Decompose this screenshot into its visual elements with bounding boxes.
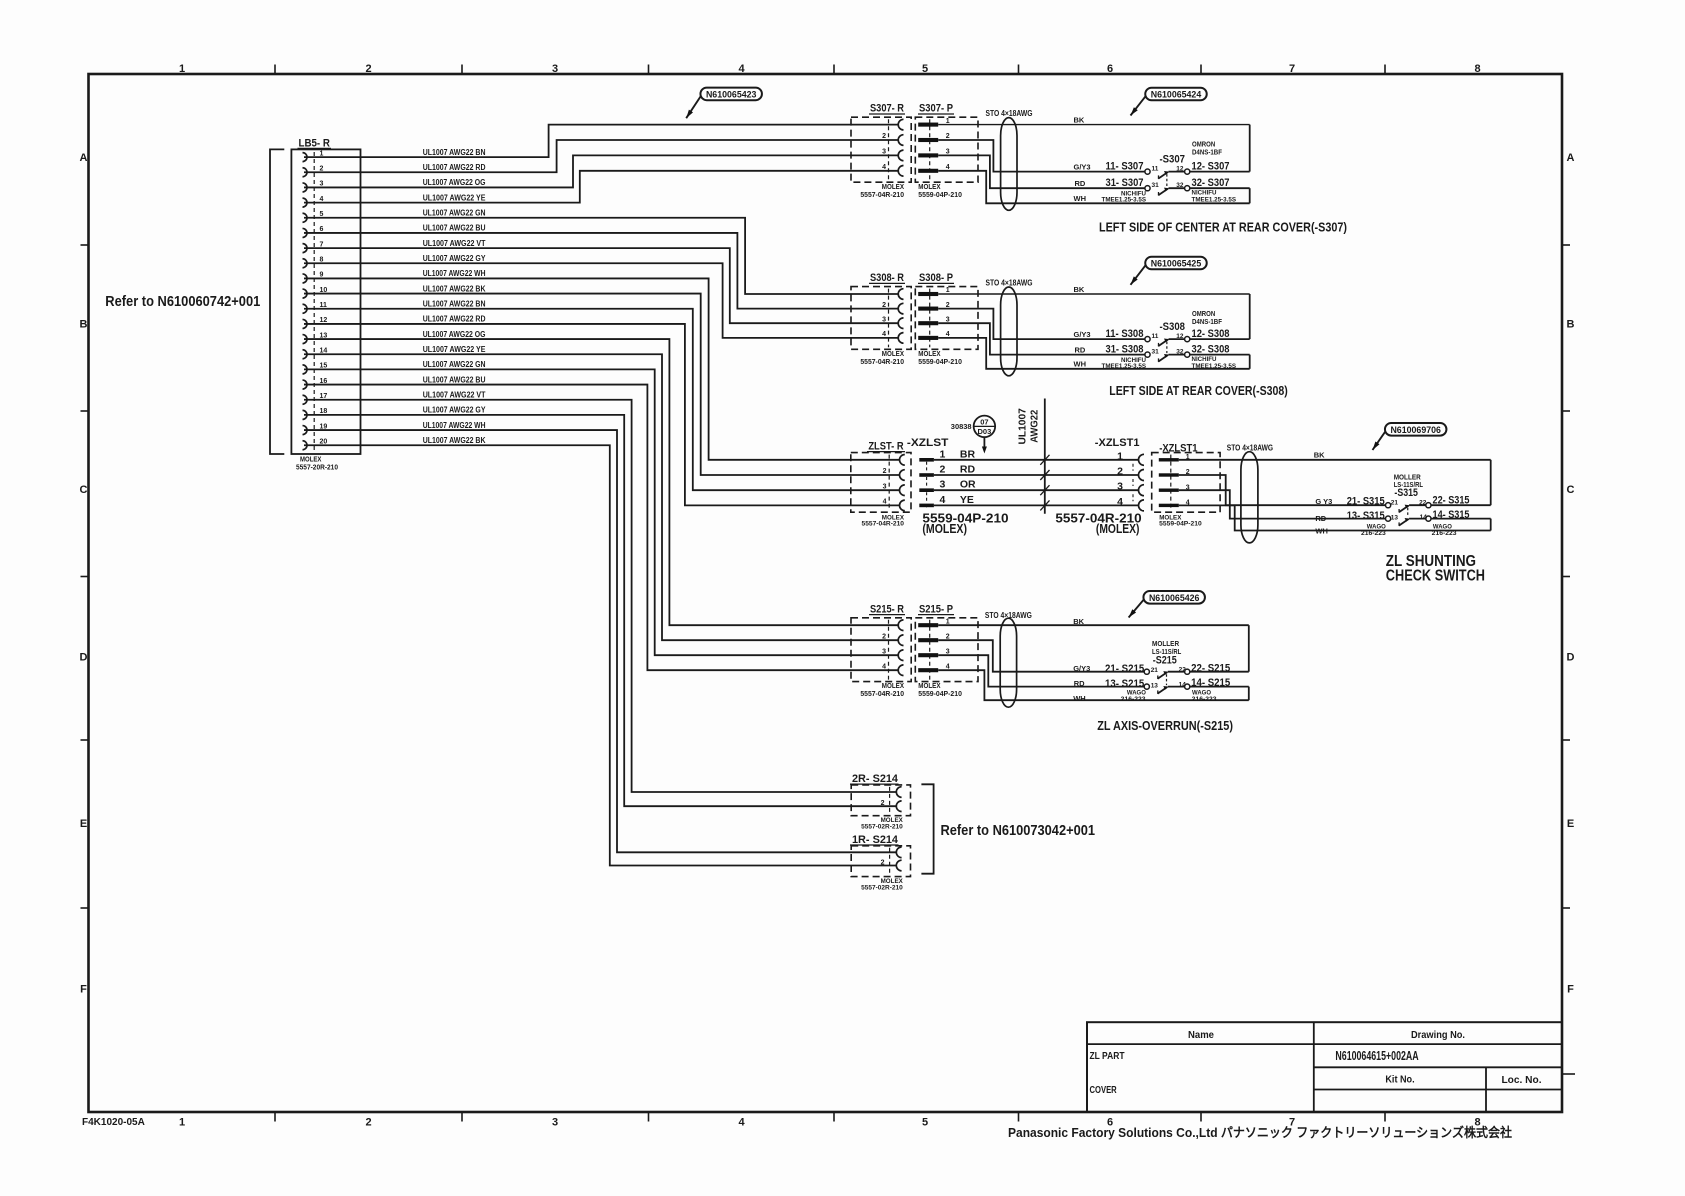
svg-text:TMEE1.25-3.5S: TMEE1.25-3.5S — [1192, 196, 1237, 203]
svg-text:Loc. No.: Loc. No. — [1501, 1074, 1541, 1086]
svg-text:21: 21 — [1151, 667, 1159, 674]
svg-text:UL1007 AWG22 BK: UL1007 AWG22 BK — [423, 436, 486, 445]
svg-text:UL1007: UL1007 — [1017, 408, 1029, 444]
svg-text:B: B — [80, 319, 88, 331]
svg-text:4: 4 — [883, 499, 887, 506]
svg-text:-XZLST: -XZLST — [907, 437, 949, 449]
svg-text:N610065424: N610065424 — [1151, 90, 1202, 100]
svg-text:RD: RD — [1075, 179, 1086, 188]
svg-text:5557-02R-210: 5557-02R-210 — [861, 824, 903, 831]
svg-text:WH: WH — [1074, 194, 1087, 203]
svg-text:14: 14 — [1420, 514, 1428, 521]
svg-text:5557-04R-210: 5557-04R-210 — [860, 359, 904, 366]
svg-text:F: F — [80, 984, 87, 996]
svg-text:D4NS-1BF: D4NS-1BF — [1192, 147, 1222, 156]
svg-text:S308- P: S308- P — [919, 272, 953, 284]
svg-text:Kit No.: Kit No. — [1385, 1073, 1414, 1085]
svg-text:4: 4 — [738, 1117, 745, 1129]
svg-text:RD: RD — [960, 464, 976, 476]
svg-text:C: C — [80, 484, 88, 496]
svg-text:UL1007 AWG22 GY: UL1007 AWG22 GY — [423, 254, 486, 263]
svg-text:5559-04P-210: 5559-04P-210 — [1159, 520, 1202, 527]
svg-text:1: 1 — [946, 118, 950, 125]
svg-text:S215- R: S215- R — [870, 603, 904, 615]
svg-text:WH: WH — [1315, 526, 1328, 535]
svg-text:7: 7 — [1289, 63, 1295, 75]
svg-text:D4NS-1BF: D4NS-1BF — [1192, 317, 1222, 326]
svg-text:C: C — [1567, 484, 1575, 496]
svg-text:30838: 30838 — [951, 422, 972, 431]
svg-text:22- S315: 22- S315 — [1433, 495, 1470, 507]
svg-text:4: 4 — [1117, 496, 1123, 508]
svg-text:UL1007 AWG22 BK: UL1007 AWG22 BK — [423, 284, 486, 293]
svg-text:Panasonic Factory Solutions Co: Panasonic Factory Solutions Co.,Ltd パナソニ… — [1008, 1125, 1512, 1140]
svg-text:-XZLST1: -XZLST1 — [1159, 443, 1197, 455]
svg-text:G Y3: G Y3 — [1315, 497, 1332, 506]
svg-text:UL1007 AWG22 RD: UL1007 AWG22 RD — [423, 315, 486, 324]
svg-text:32: 32 — [1176, 182, 1184, 189]
svg-text:5557-20R-210: 5557-20R-210 — [296, 465, 338, 472]
svg-text:LEFT SIDE OF CENTER AT REAR CO: LEFT SIDE OF CENTER AT REAR COVER(-S307) — [1099, 221, 1347, 235]
svg-text:6: 6 — [1107, 63, 1113, 75]
svg-text:Name: Name — [1188, 1029, 1214, 1041]
svg-text:N610065425: N610065425 — [1151, 259, 1202, 269]
svg-text:(MOLEX): (MOLEX) — [922, 521, 967, 536]
svg-text:G/Y3: G/Y3 — [1073, 664, 1090, 673]
svg-text:D03: D03 — [978, 427, 992, 436]
svg-text:ZL AXIS-OVERRUN(-S215): ZL AXIS-OVERRUN(-S215) — [1097, 719, 1233, 733]
svg-text:BK: BK — [1074, 285, 1085, 294]
svg-text:4: 4 — [882, 164, 886, 171]
svg-text:-S307: -S307 — [1160, 153, 1186, 165]
svg-text:07: 07 — [980, 417, 988, 426]
svg-text:1R- S214: 1R- S214 — [852, 834, 899, 846]
svg-text:ZLST- R: ZLST- R — [868, 441, 903, 453]
svg-text:BK: BK — [1073, 617, 1084, 626]
svg-text:BK: BK — [1074, 115, 1085, 124]
svg-text:5557-04R-210: 5557-04R-210 — [862, 520, 905, 527]
svg-text:12: 12 — [1176, 333, 1184, 340]
svg-text:216-223: 216-223 — [1121, 696, 1146, 703]
svg-text:5559-04P-210: 5559-04P-210 — [918, 691, 962, 698]
svg-text:3: 3 — [1117, 481, 1123, 493]
svg-text:UL1007 AWG22 BU: UL1007 AWG22 BU — [423, 375, 486, 384]
svg-text:ZL PART: ZL PART — [1090, 1050, 1125, 1062]
svg-text:21- S315: 21- S315 — [1347, 496, 1385, 508]
svg-text:-S315: -S315 — [1394, 487, 1418, 499]
svg-text:F: F — [1567, 984, 1574, 996]
svg-text:31- S308: 31- S308 — [1106, 344, 1144, 356]
svg-text:BR: BR — [960, 448, 976, 460]
svg-text:5557-04R-210: 5557-04R-210 — [860, 691, 904, 698]
svg-text:UL1007 AWG22 OG: UL1007 AWG22 OG — [423, 178, 486, 187]
svg-text:D: D — [1567, 652, 1575, 664]
svg-text:5: 5 — [922, 63, 928, 75]
svg-text:RD: RD — [1074, 679, 1085, 688]
svg-text:2: 2 — [940, 464, 946, 476]
svg-text:3: 3 — [882, 149, 886, 156]
svg-text:UL1007 AWG22 OG: UL1007 AWG22 OG — [423, 330, 486, 339]
svg-text:UL1007 AWG22 BU: UL1007 AWG22 BU — [423, 224, 486, 233]
svg-text:-S215: -S215 — [1153, 654, 1177, 666]
svg-text:3: 3 — [883, 483, 887, 490]
svg-text:MOLEX: MOLEX — [882, 683, 904, 690]
svg-text:32- S307: 32- S307 — [1192, 177, 1230, 189]
svg-text:S307- R: S307- R — [870, 103, 904, 115]
svg-text:5: 5 — [922, 1117, 928, 1129]
svg-text:1: 1 — [940, 448, 946, 460]
svg-text:CHECK SWITCH: CHECK SWITCH — [1386, 568, 1485, 585]
svg-text:11- S308: 11- S308 — [1106, 328, 1144, 340]
svg-text:TMEE1.25-3.5S: TMEE1.25-3.5S — [1102, 363, 1147, 370]
svg-text:31- S307: 31- S307 — [1106, 177, 1144, 189]
svg-text:E: E — [80, 818, 87, 830]
svg-text:22- S215: 22- S215 — [1191, 662, 1230, 674]
svg-text:5559-04P-210: 5559-04P-210 — [918, 359, 962, 366]
svg-text:COVER: COVER — [1090, 1084, 1118, 1096]
svg-text:UL1007 AWG22 WH: UL1007 AWG22 WH — [423, 269, 486, 278]
svg-text:UL1007 AWG22 RD: UL1007 AWG22 RD — [423, 163, 486, 172]
svg-text:UL1007 AWG22 BN: UL1007 AWG22 BN — [423, 148, 486, 157]
svg-text:2: 2 — [882, 133, 886, 140]
svg-text:LEFT SIDE AT REAR COVER(-S308): LEFT SIDE AT REAR COVER(-S308) — [1109, 384, 1288, 398]
svg-text:E: E — [1567, 818, 1574, 830]
svg-text:MOLEX: MOLEX — [918, 184, 940, 191]
svg-text:WH: WH — [1074, 360, 1087, 369]
svg-text:3: 3 — [882, 316, 886, 323]
svg-text:-XZLST1: -XZLST1 — [1095, 437, 1140, 449]
svg-text:216-223: 216-223 — [1432, 530, 1457, 537]
svg-text:13: 13 — [1151, 682, 1159, 689]
svg-text:UL1007 AWG22 BN: UL1007 AWG22 BN — [423, 300, 486, 309]
svg-text:UL1007 AWG22 YE: UL1007 AWG22 YE — [423, 193, 486, 202]
svg-text:4: 4 — [738, 63, 745, 75]
svg-text:4: 4 — [940, 494, 946, 506]
svg-text:11: 11 — [1152, 165, 1159, 172]
svg-text:MOLEX: MOLEX — [882, 351, 904, 358]
svg-text:31: 31 — [1152, 348, 1160, 355]
svg-text:A: A — [80, 152, 88, 164]
svg-text:14: 14 — [1179, 682, 1187, 689]
svg-text:Refer to N610060742+001: Refer to N610060742+001 — [105, 294, 260, 310]
svg-text:2: 2 — [881, 860, 885, 867]
svg-text:4: 4 — [882, 331, 886, 338]
svg-text:RD: RD — [1075, 345, 1086, 354]
svg-text:YE: YE — [960, 494, 974, 506]
svg-text:S307- P: S307- P — [919, 103, 953, 115]
svg-text:13: 13 — [1391, 515, 1399, 522]
svg-text:S308- R: S308- R — [870, 272, 904, 284]
svg-text:UL1007 AWG22 VT: UL1007 AWG22 VT — [423, 391, 486, 400]
svg-text:A: A — [1567, 152, 1575, 164]
svg-text:2R- S214: 2R- S214 — [852, 773, 899, 785]
svg-text:Drawing No.: Drawing No. — [1411, 1029, 1465, 1041]
svg-text:4: 4 — [882, 663, 886, 670]
svg-text:TMEE1.25-3.5S: TMEE1.25-3.5S — [1102, 196, 1147, 203]
svg-text:5557-02R-210: 5557-02R-210 — [861, 884, 903, 891]
svg-text:S215- P: S215- P — [919, 603, 953, 615]
svg-text:1: 1 — [179, 63, 185, 75]
svg-text:2: 2 — [365, 1117, 371, 1129]
svg-text:BK: BK — [1314, 451, 1325, 460]
svg-text:N610065423: N610065423 — [706, 89, 757, 99]
svg-text:STO 4×18AWG: STO 4×18AWG — [986, 109, 1033, 118]
svg-text:3: 3 — [552, 1117, 558, 1129]
svg-text:MOLEX: MOLEX — [918, 683, 940, 690]
svg-text:1: 1 — [179, 1117, 185, 1129]
svg-text:2: 2 — [882, 302, 886, 309]
svg-text:5557-04R-210: 5557-04R-210 — [860, 192, 904, 199]
svg-text:B: B — [1567, 319, 1575, 331]
svg-text:12- S308: 12- S308 — [1192, 328, 1230, 340]
svg-text:12: 12 — [1176, 165, 1184, 172]
svg-text:8: 8 — [1474, 63, 1480, 75]
svg-text:3: 3 — [552, 63, 558, 75]
svg-text:12- S307: 12- S307 — [1192, 161, 1230, 173]
svg-text:TMEE1.25-3.5S: TMEE1.25-3.5S — [1192, 363, 1237, 370]
svg-text:2: 2 — [365, 63, 371, 75]
svg-text:11- S307: 11- S307 — [1106, 161, 1144, 173]
svg-text:2: 2 — [882, 633, 886, 640]
svg-text:UL1007 AWG22 GY: UL1007 AWG22 GY — [423, 406, 486, 415]
svg-text:14- S215: 14- S215 — [1191, 677, 1230, 689]
svg-text:32: 32 — [1176, 348, 1184, 355]
svg-text:3: 3 — [882, 648, 886, 655]
svg-text:STO 4×18AWG: STO 4×18AWG — [985, 611, 1032, 620]
svg-text:D: D — [80, 652, 88, 664]
svg-text:13- S315: 13- S315 — [1347, 510, 1385, 522]
svg-text:-S308: -S308 — [1160, 321, 1186, 333]
svg-text:(MOLEX): (MOLEX) — [1096, 521, 1140, 536]
svg-text:2: 2 — [881, 800, 885, 807]
svg-text:13- S215: 13- S215 — [1105, 678, 1144, 690]
svg-text:AWG22: AWG22 — [1028, 410, 1040, 443]
svg-text:UL1007 AWG22 GN: UL1007 AWG22 GN — [423, 209, 486, 218]
svg-text:3: 3 — [940, 479, 946, 491]
svg-text:N610069706: N610069706 — [1390, 425, 1441, 435]
svg-text:N610064615+002AA: N610064615+002AA — [1335, 1048, 1419, 1063]
svg-text:Refer to N610073042+001: Refer to N610073042+001 — [941, 823, 1096, 839]
svg-text:1: 1 — [946, 287, 950, 294]
svg-text:21- S215: 21- S215 — [1105, 663, 1144, 675]
svg-text:UL1007 AWG22 GN: UL1007 AWG22 GN — [423, 360, 486, 369]
svg-text:216-223: 216-223 — [1361, 530, 1386, 537]
svg-text:1: 1 — [1117, 450, 1123, 462]
svg-text:14- S315: 14- S315 — [1433, 509, 1470, 521]
svg-text:OR: OR — [960, 479, 976, 491]
svg-text:UL1007 AWG22 YE: UL1007 AWG22 YE — [423, 345, 486, 354]
svg-text:22: 22 — [1179, 666, 1187, 673]
svg-text:RD: RD — [1315, 514, 1326, 523]
svg-text:2: 2 — [883, 468, 887, 475]
svg-text:216-223: 216-223 — [1192, 696, 1217, 703]
svg-text:STO 4×18AWG: STO 4×18AWG — [986, 279, 1033, 288]
svg-text:G/Y3: G/Y3 — [1074, 330, 1091, 339]
svg-text:MOLEX: MOLEX — [300, 457, 322, 464]
svg-text:F4K1020-05A: F4K1020-05A — [82, 1117, 145, 1128]
svg-text:32- S308: 32- S308 — [1192, 344, 1230, 356]
svg-text:UL1007 AWG22 VT: UL1007 AWG22 VT — [423, 239, 486, 248]
svg-text:21: 21 — [1391, 500, 1399, 507]
svg-text:N610065426: N610065426 — [1149, 593, 1200, 603]
svg-text:MOLEX: MOLEX — [882, 184, 904, 191]
svg-text:STO 4×18AWG: STO 4×18AWG — [1227, 443, 1273, 452]
svg-text:UL1007 AWG22 WH: UL1007 AWG22 WH — [423, 421, 486, 430]
svg-text:31: 31 — [1152, 182, 1160, 189]
svg-text:11: 11 — [1152, 333, 1159, 340]
svg-text:5559-04P-210: 5559-04P-210 — [918, 192, 962, 199]
svg-text:WH: WH — [1073, 694, 1086, 703]
svg-text:MOLEX: MOLEX — [918, 351, 940, 358]
svg-text:22: 22 — [1419, 500, 1427, 507]
svg-text:G/Y3: G/Y3 — [1074, 162, 1091, 171]
svg-text:2: 2 — [1117, 466, 1123, 478]
